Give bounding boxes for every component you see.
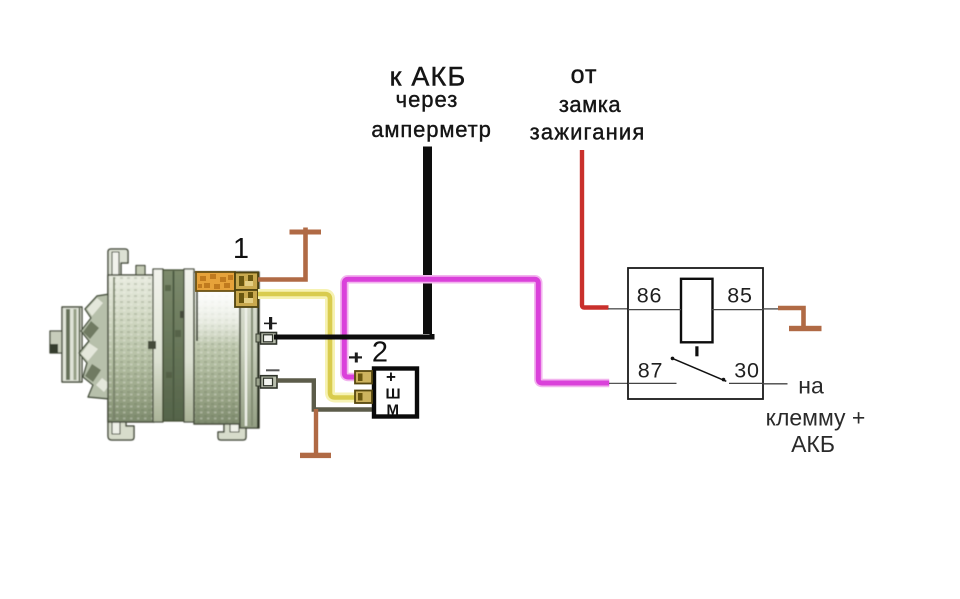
svg-text:Ш: Ш [385, 386, 400, 403]
alternator bottom front mounting lug [108, 400, 134, 440]
svg-text:клемму +: клемму + [766, 405, 866, 431]
box 2 (+Ш М) [355, 368, 417, 419]
relay pin line 30 [729, 382, 763, 384]
alternator pulley [62, 307, 82, 382]
svg-text:2: 2 [372, 337, 388, 369]
alternator rear housing [194, 272, 240, 424]
minus sign at terminal [266, 369, 280, 371]
relay coil tick [695, 346, 698, 356]
connector block 1 (orange) [196, 272, 258, 307]
wire black vertical (to ammeter) [423, 147, 432, 335]
wire black horizontal from plus terminal [274, 334, 432, 337]
svg-text:1: 1 [233, 233, 249, 265]
wire yellow [258, 294, 356, 398]
wire magenta halo [344, 279, 609, 383]
wire red from ignition switch [582, 150, 609, 308]
svg-text:30: 30 [734, 359, 760, 383]
svg-text:зажигания: зажигания [530, 120, 646, 145]
alternator stator band [163, 270, 184, 421]
svg-text:на: на [798, 373, 824, 399]
svg-text:86: 86 [637, 284, 663, 308]
svg-text:через: через [396, 87, 459, 112]
alternator fan [79, 294, 110, 399]
wire yellow halo [258, 294, 356, 398]
wire dark olive from minus terminal to box2 [276, 381, 372, 410]
alternator front housing tab [136, 266, 145, 277]
alternator top front mounting lug [108, 249, 128, 294]
relay K1 [628, 268, 788, 399]
box2 terminal upper [355, 371, 372, 384]
alternator front housing [108, 275, 154, 422]
relay pin line 30 external [763, 383, 788, 385]
alternator end cap [240, 272, 259, 428]
wire thin gray to relay pin 86 [608, 308, 628, 310]
box2 terminal lower [355, 391, 372, 404]
minus terminal bolt [256, 376, 277, 388]
wire brown to bottom ground [314, 409, 318, 454]
connector terminal upper [235, 273, 258, 291]
relay pin line 85 [712, 309, 763, 311]
ground right of relay (brown) [778, 308, 804, 327]
plus sign at terminal [264, 317, 277, 330]
relay switch contact [671, 358, 726, 382]
relay pin line 86 [628, 309, 681, 311]
wire brown from connector to ground [258, 228, 306, 280]
svg-text:87: 87 [638, 359, 664, 383]
svg-text:замка: замка [559, 92, 622, 117]
svg-text:АКБ: АКБ [791, 431, 835, 457]
relay pin line 85 external [763, 308, 779, 310]
wire magenta from ignition relay pin87 to box2 and junction [344, 279, 609, 383]
alternator shaft nut [50, 331, 63, 353]
plus terminal bolt [256, 333, 277, 345]
svg-text:М: М [387, 401, 400, 418]
wire thin gray from magenta to relay pin 87 [609, 382, 628, 384]
alternator bottom rear mounting lug [218, 400, 246, 440]
svg-text:от: от [571, 61, 598, 89]
svg-text:+: + [386, 368, 396, 387]
svg-text:85: 85 [727, 284, 753, 308]
plus sign near box2 [349, 353, 362, 363]
alternator front ring [153, 269, 163, 422]
connector terminal lower [235, 290, 258, 307]
ground top (for connector) [290, 230, 322, 235]
svg-text:амперметр: амперметр [371, 117, 491, 142]
ground bottom [300, 453, 331, 458]
relay coil [681, 279, 713, 343]
relay pin line 87 [628, 382, 677, 384]
alternator G1 [50, 249, 259, 440]
alternator rear ring [184, 269, 194, 422]
